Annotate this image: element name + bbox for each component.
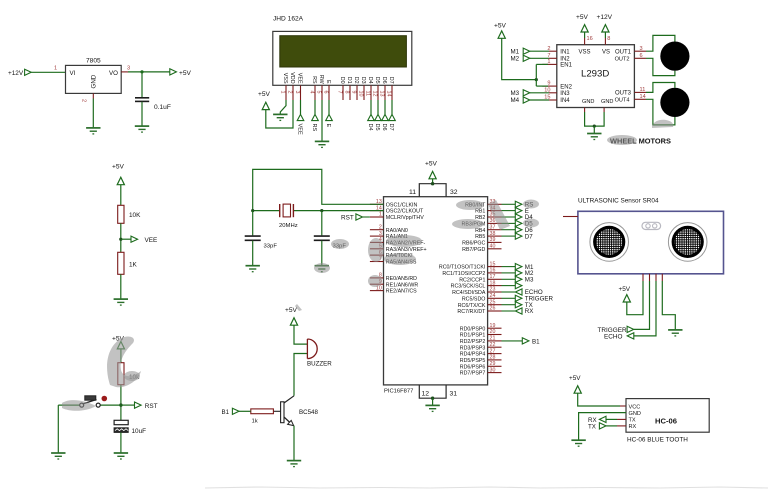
svg-text:RS: RS (311, 76, 317, 84)
svg-text:D7: D7 (388, 124, 394, 131)
svg-text:RC7/RX/DT: RC7/RX/DT (457, 309, 486, 315)
svg-text:0.1uF: 0.1uF (154, 104, 171, 111)
svg-text:RD3/PSP3: RD3/PSP3 (460, 345, 486, 351)
svg-text:16: 16 (490, 268, 496, 274)
svg-text:RC5/SDO: RC5/SDO (462, 296, 486, 302)
svg-text:11: 11 (409, 189, 416, 196)
svg-text:12: 12 (422, 391, 430, 398)
svg-text:HC-06 BLUE TOOTH: HC-06 BLUE TOOTH (627, 437, 688, 444)
svg-text:+5V: +5V (619, 286, 631, 293)
svg-text:38: 38 (490, 231, 496, 237)
svg-text:EN1: EN1 (560, 63, 572, 69)
svg-text:GND: GND (601, 99, 613, 105)
svg-text:+5V: +5V (569, 375, 581, 382)
svg-text:1: 1 (280, 91, 286, 94)
svg-text:RE2/AN7/CS: RE2/AN7/CS (386, 289, 417, 295)
svg-text:TX: TX (629, 418, 636, 424)
svg-text:VEE: VEE (297, 124, 303, 135)
svg-text:RB7/PGD: RB7/PGD (462, 247, 485, 253)
svg-text:40: 40 (490, 244, 496, 250)
svg-text:+12V: +12V (8, 70, 24, 77)
svg-text:RB1: RB1 (475, 209, 485, 215)
svg-text:D0: D0 (339, 77, 345, 84)
svg-text:RW: RW (318, 75, 324, 85)
svg-text:+12V: +12V (597, 14, 613, 21)
svg-text:3: 3 (127, 66, 130, 72)
svg-text:9: 9 (351, 91, 357, 94)
svg-text:D1: D1 (346, 77, 352, 84)
svg-text:5: 5 (316, 91, 322, 94)
svg-text:D6: D6 (381, 124, 387, 131)
svg-text:24: 24 (490, 293, 496, 299)
svg-text:18: 18 (490, 280, 496, 286)
svg-text:IN1: IN1 (560, 49, 570, 55)
svg-text:VSS: VSS (282, 73, 288, 84)
svg-text:1: 1 (379, 212, 382, 218)
svg-text:30: 30 (490, 367, 496, 373)
svg-text:39: 39 (490, 237, 496, 243)
svg-text:RB6/PGC: RB6/PGC (462, 241, 485, 247)
svg-text:14: 14 (640, 94, 646, 100)
svg-text:RC3/SCK/SCL: RC3/SCK/SCL (451, 284, 486, 290)
svg-text:B1: B1 (222, 409, 230, 416)
svg-text:RD1/PSP1: RD1/PSP1 (460, 333, 486, 339)
svg-text:OUT3: OUT3 (615, 91, 632, 97)
svg-text:D7: D7 (388, 77, 394, 84)
svg-text:M3: M3 (525, 277, 534, 284)
svg-text:11: 11 (640, 87, 646, 93)
svg-text:E: E (325, 80, 331, 84)
svg-text:2: 2 (81, 99, 87, 102)
svg-text:26: 26 (490, 306, 496, 312)
svg-text:2: 2 (287, 91, 293, 94)
svg-text:PIC16F877: PIC16F877 (384, 389, 413, 395)
svg-text:RD2/PSP2: RD2/PSP2 (460, 339, 486, 345)
svg-text:B1: B1 (532, 338, 540, 345)
svg-text:GND: GND (629, 411, 641, 417)
svg-text:D5: D5 (374, 124, 380, 131)
svg-text:IN3: IN3 (560, 91, 570, 97)
svg-text:29: 29 (490, 361, 496, 367)
svg-text:RA3/AN3/VREF+: RA3/AN3/VREF+ (386, 247, 427, 253)
svg-text:GND: GND (91, 74, 98, 88)
svg-text:+5V: +5V (258, 91, 271, 98)
svg-text:D5: D5 (374, 77, 380, 84)
svg-text:TX: TX (588, 423, 596, 430)
svg-text:RD7/PSP7: RD7/PSP7 (460, 371, 486, 377)
svg-text:MCLR/Vpp/THV: MCLR/Vpp/THV (386, 215, 424, 221)
svg-text:OSC1/CLKIN: OSC1/CLKIN (386, 202, 418, 208)
svg-text:+5V: +5V (576, 14, 589, 21)
svg-text:+5V: +5V (425, 160, 438, 167)
svg-text:HC-06: HC-06 (655, 417, 677, 426)
svg-text:M1: M1 (511, 48, 520, 55)
svg-text:6: 6 (323, 91, 329, 94)
svg-text:28: 28 (490, 355, 496, 361)
svg-text:RX: RX (525, 308, 534, 315)
svg-text:21: 21 (490, 336, 496, 342)
svg-text:RST: RST (145, 403, 158, 410)
svg-text:D4: D4 (367, 77, 373, 84)
svg-text:RD4/PSP4: RD4/PSP4 (460, 352, 486, 358)
svg-text:4: 4 (309, 91, 315, 94)
svg-text:13: 13 (379, 91, 385, 97)
svg-text:JHD 162A: JHD 162A (273, 16, 304, 23)
svg-text:6: 6 (640, 53, 643, 59)
svg-text:RB4: RB4 (475, 228, 485, 234)
svg-text:IN2: IN2 (560, 57, 570, 63)
svg-text:20MHz: 20MHz (279, 223, 298, 229)
svg-text:M2: M2 (511, 56, 520, 63)
svg-text:32: 32 (450, 189, 458, 196)
svg-text:+5V: +5V (179, 70, 192, 77)
svg-text:RS: RS (311, 124, 317, 132)
svg-text:RE1/AN6/WR: RE1/AN6/WR (386, 282, 419, 288)
svg-text:D7: D7 (525, 233, 533, 240)
svg-text:10uF: 10uF (132, 428, 147, 435)
svg-text:RD5/PSP5: RD5/PSP5 (460, 358, 486, 364)
svg-text:16: 16 (587, 36, 593, 42)
svg-text:D3: D3 (360, 77, 366, 84)
svg-text:22: 22 (490, 342, 496, 348)
svg-text:RB5: RB5 (475, 234, 485, 240)
svg-text:RE0/AN5/RD: RE0/AN5/RD (386, 276, 417, 282)
svg-text:VDD: VDD (289, 72, 295, 83)
svg-text:OUT4: OUT4 (615, 98, 630, 104)
svg-text:7: 7 (337, 91, 343, 94)
svg-text:25: 25 (490, 299, 496, 305)
svg-text:BC548: BC548 (299, 409, 318, 416)
svg-text:VO: VO (109, 70, 118, 77)
svg-text:3: 3 (379, 231, 382, 237)
svg-text:12: 12 (372, 91, 378, 97)
svg-text:37: 37 (490, 224, 496, 230)
svg-text:31: 31 (450, 391, 458, 398)
svg-text:RD6/PSP6: RD6/PSP6 (460, 364, 486, 370)
svg-text:23: 23 (490, 287, 496, 293)
svg-text:RC2/CCP1: RC2/CCP1 (459, 277, 485, 283)
svg-text:VCC: VCC (629, 404, 641, 410)
svg-text:RC1/T1OSI/CCP2: RC1/T1OSI/CCP2 (442, 271, 485, 277)
svg-text:OUT1: OUT1 (615, 49, 632, 55)
svg-text:17: 17 (490, 274, 496, 280)
svg-text:1: 1 (54, 66, 57, 72)
svg-text:3: 3 (640, 46, 643, 52)
svg-text:D6: D6 (381, 77, 387, 84)
svg-text:27: 27 (490, 348, 496, 354)
svg-text:L293D: L293D (581, 69, 609, 80)
svg-text:1k: 1k (252, 419, 258, 425)
svg-text:14: 14 (386, 91, 392, 97)
svg-text:EN2: EN2 (560, 84, 572, 90)
svg-text:M3: M3 (511, 90, 520, 97)
svg-text:15: 15 (490, 261, 496, 267)
svg-text:2: 2 (379, 224, 382, 230)
svg-text:D2: D2 (353, 77, 359, 84)
svg-text:RA0/AN0: RA0/AN0 (386, 228, 408, 234)
svg-text:+5V: +5V (494, 23, 507, 30)
svg-text:VI: VI (70, 70, 76, 77)
svg-text:RX: RX (629, 424, 637, 430)
svg-text:RD0/PSP0: RD0/PSP0 (460, 326, 486, 332)
svg-text:10: 10 (358, 91, 364, 97)
svg-text:8: 8 (344, 91, 350, 94)
svg-text:+5V: +5V (112, 164, 125, 171)
svg-text:VEE: VEE (297, 73, 303, 84)
svg-text:3: 3 (294, 91, 300, 94)
svg-text:RST: RST (341, 215, 354, 222)
svg-text:+5V: +5V (285, 307, 298, 314)
svg-text:M4: M4 (511, 97, 520, 104)
svg-text:IN4: IN4 (560, 98, 570, 104)
svg-text:7805: 7805 (86, 58, 101, 65)
svg-text:RC6/TX/CK: RC6/TX/CK (458, 303, 486, 309)
svg-text:10K: 10K (129, 212, 141, 219)
svg-text:VEE: VEE (145, 237, 158, 244)
svg-text:19: 19 (490, 323, 496, 329)
svg-text:OUT2: OUT2 (615, 57, 630, 63)
svg-text:RC0/T1OSO/T1CKI: RC0/T1OSO/T1CKI (439, 265, 486, 271)
svg-text:D4: D4 (367, 124, 373, 131)
svg-text:ULTRASONIC Sensor SR04: ULTRASONIC Sensor SR04 (578, 198, 659, 205)
svg-text:ECHO: ECHO (604, 333, 622, 340)
svg-text:VS: VS (602, 50, 610, 56)
svg-text:GND: GND (582, 99, 594, 105)
svg-text:20: 20 (490, 329, 496, 335)
svg-text:36: 36 (490, 218, 496, 224)
svg-text:1K: 1K (129, 262, 138, 269)
svg-text:VSS: VSS (579, 50, 591, 56)
svg-text:BUZZER: BUZZER (307, 361, 332, 368)
svg-text:8: 8 (607, 36, 610, 42)
svg-text:33pF: 33pF (264, 244, 278, 250)
svg-text:11: 11 (365, 91, 371, 97)
svg-text:RC4/SDI/SDA: RC4/SDI/SDA (452, 290, 486, 296)
svg-text:E: E (325, 124, 331, 128)
svg-text:OSC2/CLKOUT: OSC2/CLKOUT (386, 209, 424, 215)
